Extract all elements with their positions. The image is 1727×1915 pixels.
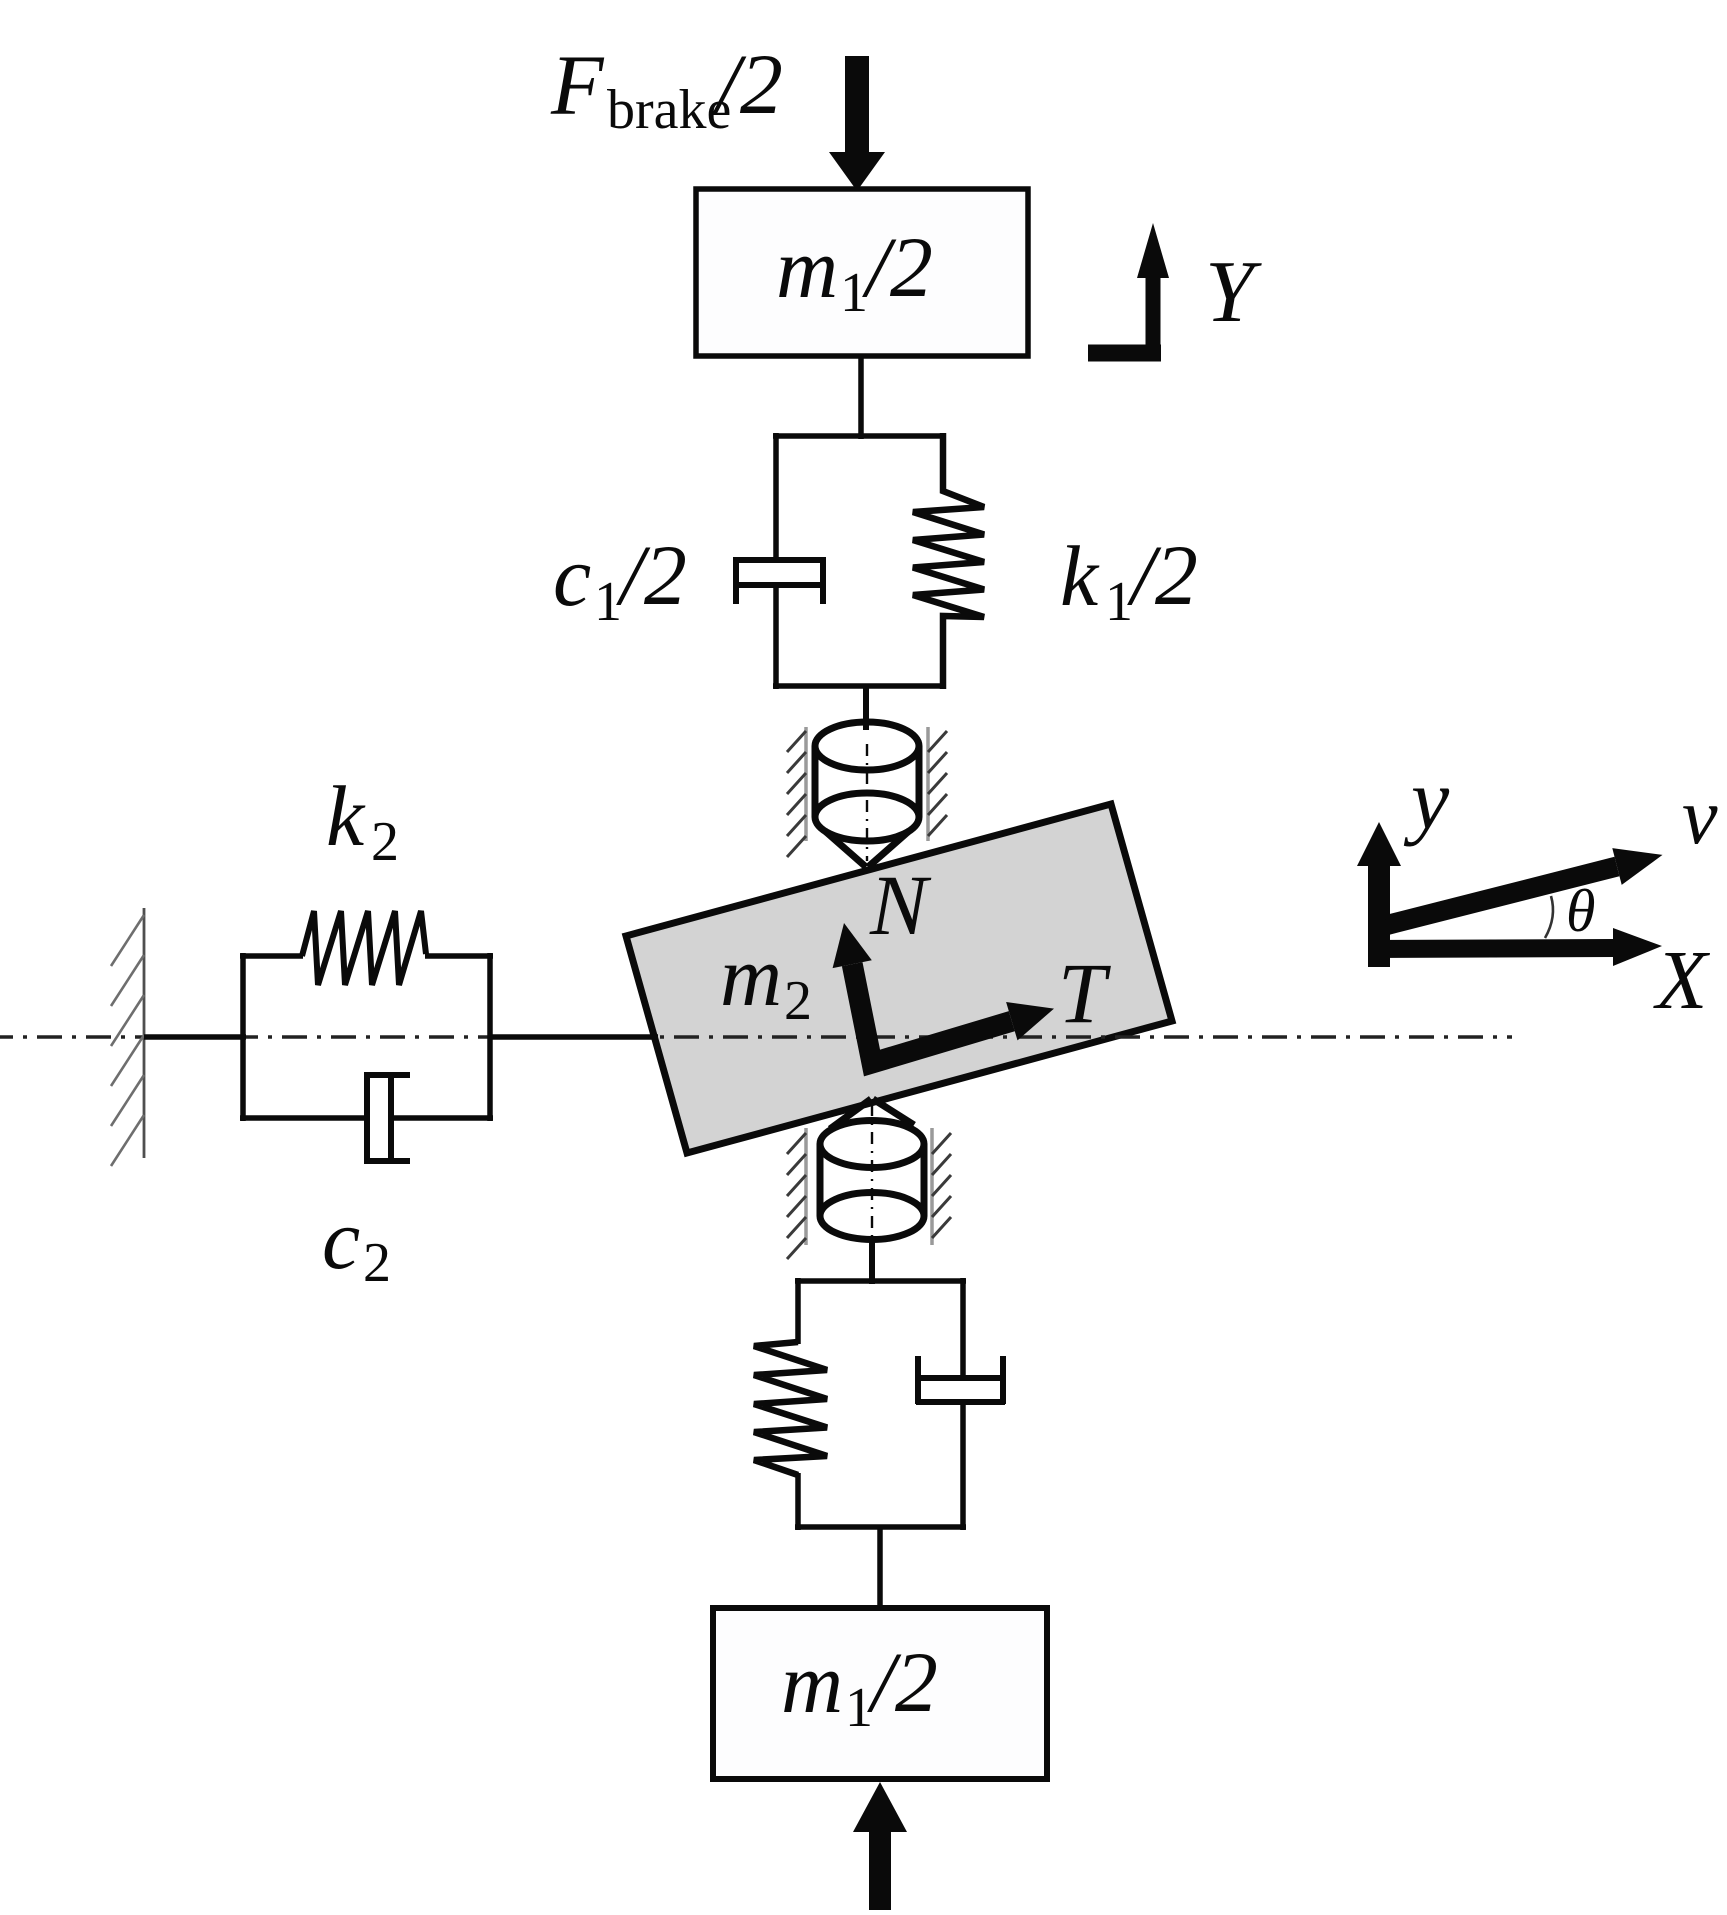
main horizontal dash-dot centerline bbox=[0, 1035, 1512, 1038]
wire right branch (damper rod top) bbox=[960, 1278, 966, 1380]
spring k1/2 lower bbox=[754, 1342, 827, 1475]
wire left branch to spring bbox=[795, 1278, 801, 1344]
svg-text:/2: /2 bbox=[616, 527, 687, 623]
lower frame bottom bar bbox=[795, 1524, 966, 1530]
lower roller (cone tip up, cylinder below) bbox=[820, 1099, 924, 1240]
k2/c2 frame bbox=[240, 953, 493, 1121]
svg-text:m: m bbox=[776, 220, 838, 316]
wire k2 frame to plate bbox=[490, 1034, 658, 1040]
svg-text:N: N bbox=[869, 857, 932, 953]
label k1/2 bbox=[1060, 527, 1198, 633]
wire damper rod bottom bbox=[773, 585, 779, 689]
arrowhead N bbox=[833, 923, 872, 968]
wire wall to k2 frame bbox=[144, 1034, 246, 1040]
label c2 bbox=[322, 1191, 391, 1294]
force arrow F_brake/2 (down) bbox=[829, 56, 885, 191]
lower roller guide rails with hatching (right) bbox=[932, 1128, 951, 1245]
lower roller centerline bbox=[871, 1104, 873, 1238]
upper roller (cylinder with cone tip) bbox=[815, 722, 919, 867]
svg-text:1: 1 bbox=[840, 262, 868, 324]
Y axis symbol bbox=[1088, 223, 1169, 360]
reaction arrow bottom (up) bbox=[853, 1782, 907, 1910]
label m2 bbox=[720, 928, 812, 1032]
wire frame to upper roller bbox=[863, 686, 869, 730]
spring k1/2 bbox=[913, 433, 984, 689]
svg-text:T: T bbox=[1058, 945, 1111, 1041]
wire damper to bottom bar bbox=[960, 1402, 966, 1530]
wire m1 box to upper spring-damper frame bbox=[858, 356, 864, 439]
svg-text:2: 2 bbox=[784, 970, 812, 1032]
v velocity arrow bbox=[1387, 867, 1617, 926]
label m1/2 bottom bbox=[781, 1634, 938, 1739]
damper c2 bbox=[364, 1072, 410, 1164]
y axis arrow bbox=[1368, 864, 1390, 967]
svg-text:/2: /2 bbox=[1127, 527, 1198, 623]
svg-text:/2: /2 bbox=[862, 219, 933, 315]
svg-text:1: 1 bbox=[845, 1677, 873, 1739]
svg-text:F: F bbox=[550, 37, 605, 133]
left wall (ground) with hatching bbox=[111, 908, 144, 1166]
svg-text:X: X bbox=[1653, 934, 1711, 1027]
svg-text:θ: θ bbox=[1566, 878, 1595, 944]
svg-text:m: m bbox=[781, 1635, 843, 1731]
svg-text:2: 2 bbox=[371, 811, 399, 873]
svg-text:/2: /2 bbox=[867, 1634, 938, 1730]
svg-text:/2: /2 bbox=[712, 36, 783, 132]
upper frame bottom bar bbox=[773, 683, 946, 689]
theta angle arc bbox=[1545, 896, 1553, 938]
lower roller guide rails with hatching (left) bbox=[787, 1128, 806, 1259]
lower frame top bar bbox=[795, 1278, 966, 1284]
mass m1/2 top box bbox=[696, 189, 1028, 356]
tilted pad mass m2 plate bbox=[626, 804, 1172, 1153]
wire spring to bottom bar bbox=[795, 1473, 801, 1530]
normal force arrow N and tangential force arrow T (shared corner) bbox=[852, 964, 1012, 1063]
label m1/2 top bbox=[776, 219, 933, 324]
spring k2 bbox=[302, 911, 426, 985]
wire left branch (damper rod top) bbox=[773, 433, 779, 559]
upper frame top bar bbox=[773, 433, 946, 439]
svg-text:k: k bbox=[326, 768, 366, 864]
svg-text:1: 1 bbox=[1105, 571, 1133, 633]
damper c1/2 lower bbox=[916, 1356, 1005, 1404]
svg-text:c: c bbox=[553, 528, 591, 624]
damper c1/2 bbox=[733, 557, 826, 604]
svg-text:c: c bbox=[322, 1191, 360, 1287]
svg-text:Y: Y bbox=[1205, 244, 1262, 341]
right coordinate axes bbox=[1357, 822, 1663, 967]
label c1/2 bbox=[553, 527, 687, 633]
label k2 bbox=[326, 768, 399, 873]
label F_brake/2 bbox=[550, 36, 783, 141]
upper roller centerline bbox=[866, 744, 868, 861]
upper roller guide rails with hatching (left) bbox=[787, 727, 806, 857]
X axis arrow bbox=[1370, 948, 1614, 949]
wire lower roller to lower frame bbox=[869, 1238, 875, 1284]
svg-text:m: m bbox=[720, 928, 782, 1024]
mass m1/2 bottom box bbox=[713, 1608, 1047, 1779]
wire lower frame to bottom mass bbox=[877, 1527, 883, 1611]
svg-text:1: 1 bbox=[594, 571, 622, 633]
upper roller guide rails with hatching (right) bbox=[928, 727, 947, 841]
svg-text:y: y bbox=[1403, 751, 1450, 847]
svg-text:2: 2 bbox=[363, 1232, 391, 1294]
arrowhead T bbox=[1006, 1002, 1054, 1040]
svg-text:v: v bbox=[1682, 773, 1718, 861]
svg-text:brake: brake bbox=[607, 79, 731, 141]
svg-text:k: k bbox=[1060, 528, 1100, 624]
